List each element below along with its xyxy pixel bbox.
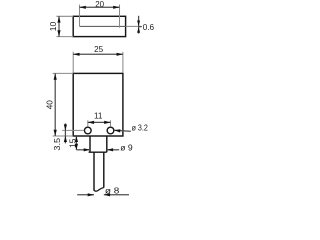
dimension 20 line [80, 6, 120, 8]
top view outline [73, 16, 125, 36]
svg-text:3.5: 3.5 [53, 138, 62, 151]
bushing right edge [106, 136, 108, 152]
hole diameter leader arrow [114, 129, 120, 132]
svg-text:11: 11 [94, 111, 103, 120]
svg-text:40: 40 [45, 100, 54, 110]
shaft break squiggle [94, 188, 104, 192]
dimension 10 line [58, 16, 60, 36]
svg-text:25: 25 [94, 45, 103, 54]
shaft right edge [103, 152, 105, 187]
dimension 25 line [73, 53, 123, 55]
extension line to 0.6 dim [126, 25, 142, 27]
svg-text:15: 15 [68, 138, 77, 148]
dimension 10 arrow top [57, 16, 60, 22]
dimension 40 arrow bottom [54, 130, 57, 136]
dimension 10 extension top [56, 15, 73, 17]
svg-text:10: 10 [49, 21, 58, 31]
mounting hole right [107, 127, 114, 134]
dimension 3.5 arrow upper [64, 124, 67, 130]
dimension 40 line [54, 73, 56, 136]
dimension 20 extension left [79, 5, 81, 27]
dimension 11 extension right [110, 120, 112, 126]
dimension 25 extension left [72, 52, 74, 73]
dimension 25 arrow left [73, 53, 79, 56]
dimension 10 arrow bottom [57, 30, 60, 36]
dimension 20 arrow left [80, 6, 86, 9]
dimension 0.6 arrow lower [137, 27, 140, 32]
dimension 0.6 arrow upper [137, 21, 140, 26]
dimension 15 arrow top [75, 136, 78, 142]
dimension 40 arrow top [54, 73, 57, 79]
dimension 11 arrow left [88, 121, 94, 124]
dimension 3.5 extension (hole centre line) [62, 129, 84, 131]
dimension o9 right leader with arrow [107, 149, 119, 151]
front view outline [73, 73, 123, 136]
dimension 0.6 tick [139, 26, 142, 28]
bushing left edge [89, 136, 91, 152]
dimension 11 arrow right [104, 121, 110, 124]
svg-text:ø 9: ø 9 [120, 143, 133, 153]
dimension 20 extension right [119, 5, 121, 28]
dimension o9 left leader with arrow [76, 149, 90, 151]
svg-text:ø 8: ø 8 [105, 186, 120, 195]
mounting hole left [84, 127, 91, 134]
dimension 40 extension top [53, 72, 74, 74]
dimension 15 line [75, 136, 77, 150]
svg-text:20: 20 [95, 0, 104, 9]
svg-text:ø 3.2: ø 3.2 [132, 123, 149, 132]
dimension 15 arrow bottom [75, 144, 78, 150]
dimension 11 line [88, 121, 111, 123]
dimension 11 extension left [87, 120, 89, 126]
inner edge line (0.6 lip) [80, 25, 126, 27]
dimension o8 right leader with arrow [104, 194, 129, 196]
dimension 3.5 arrow lower [64, 136, 67, 142]
dimension 20 arrow right [113, 6, 119, 9]
dimension 3.5 line [64, 123, 66, 143]
dimension 40 extension bottom (bottom edge extended) [53, 135, 74, 137]
dimension 25 extension right [122, 52, 124, 73]
hole diameter leader line [114, 130, 131, 131]
dimension 10 extension bottom [56, 36, 73, 38]
dimension 0.6 line [138, 16, 140, 34]
svg-text:0.6: 0.6 [143, 23, 155, 32]
dimension o8 left leader with arrow [77, 194, 94, 196]
bushing bottom step [89, 151, 107, 153]
dimension 25 arrow right [117, 53, 123, 56]
shaft left edge [93, 152, 95, 190]
